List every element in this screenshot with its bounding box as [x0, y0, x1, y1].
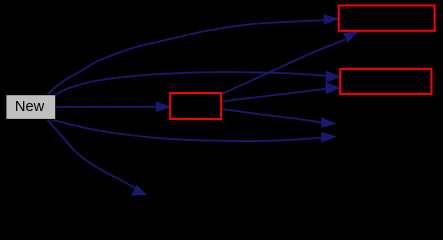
edge node3 -> node2: [222, 82, 342, 101]
node2 red box right: [340, 69, 431, 94]
node New (current function, grey): [6, 95, 56, 120]
edge node3 -> hidden node A: [222, 109, 337, 128]
edge New -> node3 (middle red box): [56, 102, 172, 113]
edge New -> hidden node A: [50, 119, 337, 142]
edge New -> node2 (right red box): [56, 71, 342, 95]
edge New -> node1 (top red box): [47, 14, 340, 95]
edge New -> hidden node B: [47, 119, 147, 195]
node1 red box top right: [339, 6, 435, 31]
edge node3 -> node1: [222, 31, 359, 94]
node3 middle red box: [170, 93, 221, 119]
svg-text:New: New: [15, 99, 45, 115]
